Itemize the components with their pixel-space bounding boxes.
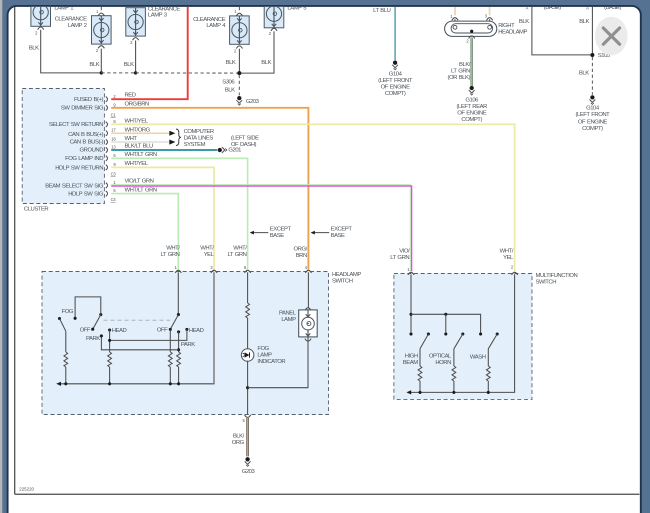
- svg-text:OF ENGINE: OF ENGINE: [578, 119, 607, 125]
- dashed bus to lamp3: [101, 72, 135, 74]
- lamp 4 pin 1: [238, 7, 240, 13]
- clearance lamp 3: [126, 8, 146, 36]
- svg-text:CAN B BUS(-): CAN B BUS(-): [70, 139, 104, 145]
- svg-text:225220: 225220: [19, 486, 34, 491]
- svg-text:WHT/: WHT/: [500, 249, 514, 255]
- svg-text:WHT/LT GRN: WHT/LT GRN: [125, 188, 157, 194]
- svg-text:CLUSTER: CLUSTER: [24, 207, 49, 213]
- svg-text:VIO/LT GRN: VIO/LT GRN: [125, 179, 154, 185]
- inner bus: [411, 314, 481, 334]
- junction lamps 1+2: [100, 71, 103, 74]
- svg-text:HEAD: HEAD: [112, 328, 127, 334]
- svg-text:LT GRN: LT GRN: [161, 252, 180, 258]
- svg-text:WHT: WHT: [125, 136, 138, 142]
- computer data lines brace: [176, 129, 181, 146]
- lamp 5 pin 2: [271, 28, 277, 31]
- resistor off2: [168, 352, 172, 367]
- svg-text:HEADLAMP: HEADLAMP: [498, 29, 527, 35]
- wire LT BLU: [394, 7, 396, 60]
- svg-text:BLK: BLK: [579, 19, 589, 25]
- svg-text:SW DIMMER SIG: SW DIMMER SIG: [61, 106, 104, 112]
- headlamp pin 3 wire stub: [489, 7, 491, 16]
- svg-text:MULTIFUNCTION: MULTIFUNCTION: [536, 273, 578, 279]
- pin 6: [245, 270, 251, 273]
- optical horn switch: [444, 332, 447, 335]
- mf pin 2: [511, 272, 517, 275]
- svg-text:G203: G203: [242, 469, 256, 475]
- cluster pin arcs: [106, 97, 108, 197]
- svg-text:WHT/LT GRN: WHT/LT GRN: [125, 152, 157, 158]
- svg-text:DATA LINES: DATA LINES: [184, 136, 214, 142]
- lamp 4 pin 2: [236, 46, 242, 49]
- svg-text:SYSTEM: SYSTEM: [184, 142, 206, 148]
- svg-text:CLEARANCE: CLEARANCE: [55, 16, 87, 22]
- switch2 pivot: [177, 313, 180, 316]
- svg-text:BASE: BASE: [331, 233, 345, 239]
- wire WHT: CAN B BUS(-): [111, 141, 169, 143]
- svg-text:HEADLAMP: HEADLAMP: [332, 272, 361, 278]
- EXCEPT BASE callout left: [252, 232, 269, 234]
- wire OFF2 down: [169, 329, 171, 352]
- wire pin4 to panel lamp: [307, 272, 309, 308]
- svg-text:ORG/: ORG/: [294, 247, 308, 253]
- svg-text:(LEFT SIDE: (LEFT SIDE: [231, 136, 259, 142]
- svg-text:YEL: YEL: [503, 255, 514, 261]
- svg-text:(LEFT REAR: (LEFT REAR: [457, 104, 488, 110]
- svg-text:WASH: WASH: [470, 355, 486, 361]
- dashed wire S105 to G104: [591, 57, 593, 95]
- panel lamp: [305, 308, 311, 311]
- pin 3: [211, 270, 217, 273]
- wire lamp3 BLK: [135, 41, 137, 73]
- svg-text:BLK: BLK: [124, 62, 134, 68]
- svg-text:BLK: BLK: [89, 62, 99, 68]
- headlamp switch box: [42, 272, 329, 415]
- wire PARK2 to PARK1: [101, 336, 178, 350]
- wire VIO/LT GRN: BEAM SELECT SW SIG to multifunction pin1: [111, 185, 410, 272]
- svg-text:WHT/YEL: WHT/YEL: [125, 118, 149, 124]
- wire lamp5 BLK: [239, 31, 274, 73]
- svg-text:BRN: BRN: [296, 253, 307, 259]
- svg-text:G104: G104: [586, 106, 600, 112]
- svg-text:LT GRN: LT GRN: [228, 252, 247, 258]
- svg-text:PARK: PARK: [86, 336, 100, 342]
- wire WHT/LT GRN: FOG LAMP IND to headlamp switch pin6: [111, 158, 247, 269]
- svg-text:LAMP 4: LAMP 4: [206, 23, 226, 29]
- fog switch contact dot: [58, 317, 61, 320]
- fog lamp indicator LED: [241, 349, 254, 362]
- svg-text:HIGH: HIGH: [405, 354, 418, 360]
- svg-text:LT GRN: LT GRN: [390, 255, 409, 261]
- svg-text:ORG: ORG: [232, 440, 245, 446]
- svg-text:S306: S306: [222, 79, 235, 85]
- junction lamp3: [134, 71, 137, 74]
- svg-text:SWITCH: SWITCH: [536, 279, 557, 285]
- resistor fog: [64, 352, 68, 367]
- svg-text:LT BLU: LT BLU: [373, 8, 391, 14]
- svg-text:SELECT SW RETURN: SELECT SW RETURN: [49, 122, 103, 128]
- svg-text:COMPT): COMPT): [461, 117, 482, 123]
- close (X) button: [595, 17, 628, 55]
- lamp 2 pin 1: [100, 7, 102, 13]
- wire LED to bottom pin: [247, 361, 249, 415]
- svg-text:RIGHT: RIGHT: [498, 23, 515, 29]
- svg-text:G104: G104: [389, 72, 403, 78]
- svg-text:EXCEPT: EXCEPT: [270, 227, 292, 233]
- wire pin1 to switch2 pivot: [177, 272, 179, 314]
- fog fixed contact: [74, 317, 77, 320]
- lamp 2 pin 2: [98, 46, 104, 49]
- multifunction switch box: [394, 274, 532, 400]
- svg-text:RED: RED: [125, 93, 136, 99]
- svg-text:SWITCH: SWITCH: [332, 279, 353, 285]
- resistor park2: [177, 352, 181, 367]
- svg-text:LAMP 2: LAMP 2: [68, 23, 87, 29]
- svg-text:PANEL: PANEL: [279, 310, 297, 316]
- svg-text:HEAD: HEAD: [189, 328, 204, 334]
- svg-text:BLK: BLK: [29, 45, 39, 51]
- ground G203 (bottom): [245, 457, 251, 466]
- svg-text:OF ENGINE: OF ENGINE: [381, 85, 410, 91]
- wire HEAD2 to HEAD1: [110, 329, 187, 340]
- svg-text:G106: G106: [465, 97, 479, 103]
- ground G104 (left): [392, 61, 398, 70]
- wire fog down: [65, 331, 67, 352]
- svg-text:BEAM: BEAM: [403, 360, 418, 366]
- wire ORG/BRN: cluster pin9 to headlamp switch pin4: [111, 108, 308, 270]
- wire HEAD1 down: [109, 330, 111, 352]
- right headlamp body: [445, 21, 497, 36]
- bottom pin 5: [245, 415, 251, 418]
- switch2 HEAD contact: [185, 328, 188, 331]
- svg-text:GROUND: GROUND: [80, 147, 104, 153]
- svg-text:FOG: FOG: [257, 346, 269, 352]
- switch1 OFF contact: [91, 328, 94, 331]
- svg-text:FOG: FOG: [62, 309, 74, 315]
- svg-text:EXCEPT: EXCEPT: [331, 227, 353, 233]
- svg-text:LAMP: LAMP: [281, 317, 296, 323]
- wire WHT/YEL: HDLP SW RETURN to headlamp switch pin3: [111, 167, 214, 269]
- junction LED bus: [246, 386, 249, 389]
- mechanical link dashed: [104, 319, 171, 321]
- svg-text:BLK: BLK: [225, 87, 235, 93]
- splice S306: [237, 71, 241, 75]
- wire WHT/ORG: CAN B BUS(+): [111, 132, 169, 134]
- svg-text:WHT/: WHT/: [233, 245, 247, 251]
- svg-text:BEAM SELECT SW SIG: BEAM SELECT SW SIG: [45, 183, 104, 189]
- svg-text:BLK/LT BLU: BLK/LT BLU: [125, 144, 153, 150]
- switch2 OFF contact: [169, 328, 172, 331]
- svg-text:G201: G201: [228, 148, 241, 154]
- splice S105: [590, 53, 594, 57]
- wire RED: cluster pin2 to top: [111, 7, 188, 99]
- wire PARK2 down: [178, 332, 180, 352]
- clearance lamp 1: [31, 0, 51, 26]
- dashed wire S306 to G203: [238, 75, 240, 96]
- fog switch arm: [60, 319, 66, 332]
- svg-text:VIO/: VIO/: [399, 249, 410, 255]
- wire BLK/ORG to G203: [246, 418, 249, 456]
- diagram inner border left: [14, 7, 16, 494]
- svg-text:G203: G203: [246, 99, 260, 105]
- headlamp filament left: [453, 25, 457, 29]
- svg-text:OFF: OFF: [157, 328, 168, 334]
- svg-text:LAMP 3: LAMP 3: [148, 12, 168, 18]
- clearance lamp 2: [92, 16, 112, 44]
- ground G104 (right): [590, 95, 596, 104]
- svg-text:BLK/: BLK/: [233, 434, 245, 440]
- wire BLK/LT BLU: ground pin13: [111, 149, 217, 151]
- pin6 column: wire + resistor: [247, 272, 249, 303]
- svg-text:WHT/: WHT/: [166, 245, 180, 251]
- computer data lines arrows: [169, 131, 175, 136]
- wire WHT/YEL: cluster pin8 to multifunction pin2: [111, 124, 514, 271]
- svg-text:BLK: BLK: [261, 60, 271, 66]
- svg-text:ORG/BRN: ORG/BRN: [125, 101, 150, 107]
- ground G201: [218, 147, 227, 153]
- switch1 PARK contact: [100, 334, 103, 337]
- headlamp pin 1 wire stub: [454, 7, 456, 16]
- wire BLK 2: [591, 7, 593, 55]
- svg-text:LT GRN: LT GRN: [451, 69, 470, 75]
- svg-text:COMPT): COMPT): [385, 91, 406, 97]
- lamp 1 pin 2: [38, 27, 44, 30]
- switch1 HEAD contact: [108, 328, 111, 331]
- wire lamp1 BLK: [41, 30, 102, 73]
- switch1 pivot: [99, 313, 102, 316]
- svg-text:CLEARANCE: CLEARANCE: [193, 17, 225, 23]
- switch2 PARK contact: [177, 330, 180, 333]
- pin 4: [305, 270, 311, 273]
- svg-text:(LEFT FRONT: (LEFT FRONT: [575, 112, 610, 118]
- svg-text:BLK: BLK: [226, 60, 236, 66]
- svg-text:FUSED B(+): FUSED B(+): [74, 97, 103, 103]
- svg-text:YEL: YEL: [204, 252, 215, 258]
- svg-text:OPTICAL: OPTICAL: [429, 354, 452, 360]
- bracket switch1 pivot to fog contact: [75, 297, 101, 318]
- wire pin1 down: [410, 274, 412, 334]
- svg-text:BLK/: BLK/: [459, 62, 471, 68]
- svg-text:OF ENGINE: OF ENGINE: [457, 110, 486, 116]
- mf bottom bus with left arrow: [409, 274, 515, 392]
- bottom bus with left arrow: [59, 272, 215, 384]
- pin 1: [175, 270, 181, 273]
- headlamp filament right: [488, 25, 492, 29]
- svg-text:PARK: PARK: [181, 342, 195, 348]
- switch1 arm: [93, 315, 101, 330]
- svg-text:BLK: BLK: [579, 71, 589, 77]
- wire lamp4 BLK: [238, 49, 240, 73]
- wire BLK/LT GRN (OR BLK): [471, 38, 473, 86]
- svg-text:HDLP SW SIG: HDLP SW SIG: [68, 192, 104, 198]
- resistor head1: [108, 352, 112, 367]
- headlamp pin 2 node: [470, 30, 473, 33]
- ground G106: [469, 86, 475, 95]
- high beam switch: [409, 332, 412, 335]
- junction PARK2: [177, 348, 180, 351]
- clearance lamp 4: [230, 16, 250, 44]
- cluster box: [22, 89, 104, 204]
- lamp 3 pin 2: [133, 38, 139, 41]
- svg-text:COMPT): COMPT): [582, 126, 603, 132]
- diagram inner border bottom: [15, 493, 640, 495]
- svg-text:LAMP: LAMP: [257, 352, 272, 358]
- mf pin 1: [408, 272, 414, 275]
- svg-text:BLK: BLK: [519, 19, 529, 25]
- svg-text:WHT/ORG: WHT/ORG: [125, 128, 151, 134]
- svg-text:HORN: HORN: [435, 360, 451, 366]
- svg-text:WHT/YEL: WHT/YEL: [125, 161, 149, 167]
- svg-text:OF DASH): OF DASH): [231, 142, 257, 148]
- svg-text:HDLP SW RETURN: HDLP SW RETURN: [55, 165, 103, 171]
- svg-text:(LEFT FRONT: (LEFT FRONT: [378, 78, 413, 84]
- junction bus pin1: [409, 313, 412, 316]
- svg-text:INDICATOR: INDICATOR: [257, 359, 285, 365]
- junction HEAD1: [108, 339, 111, 342]
- svg-text:BASE: BASE: [270, 233, 284, 239]
- wire BLK 1: [532, 7, 591, 55]
- svg-text:OFF: OFF: [80, 327, 91, 333]
- svg-text:FOG LAMP IND: FOG LAMP IND: [65, 156, 103, 162]
- ground G203 (top): [236, 96, 242, 105]
- svg-text:(OR BLK): (OR BLK): [447, 75, 470, 81]
- wire WHT/LT GRN: HDLP SW SIG to headlamp switch pin1: [111, 194, 178, 270]
- wash switch: [479, 332, 482, 335]
- dashed bus to S306: [136, 72, 240, 74]
- EXCEPT BASE callout right: [313, 232, 330, 234]
- clearance lamp 5: [264, 0, 284, 28]
- svg-text:COMPUTER: COMPUTER: [184, 129, 214, 135]
- switch2 arm: [170, 315, 178, 330]
- svg-text:CAN B BUS(+): CAN B BUS(+): [68, 132, 103, 138]
- wire lamp2 BLK: [100, 49, 102, 73]
- wire panel lamp bus: [248, 337, 308, 388]
- svg-text:WHT/: WHT/: [200, 245, 214, 251]
